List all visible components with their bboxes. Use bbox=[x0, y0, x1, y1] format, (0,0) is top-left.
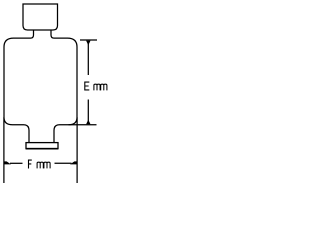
label F mm bbox=[37, 162, 50, 168]
base bbox=[26, 143, 58, 149]
F dimension line right bbox=[55, 162, 72, 164]
left extension line bbox=[3, 117, 5, 183]
F dimension arrow right bbox=[70, 161, 77, 164]
base bottom edge bbox=[26, 148, 59, 150]
F dimension arrow left bbox=[4, 161, 11, 164]
label E mm bbox=[94, 84, 107, 90]
right extension line bbox=[76, 117, 78, 183]
E top extension line bbox=[80, 39, 97, 41]
F dimension line left bbox=[10, 162, 23, 164]
E dimension line upper bbox=[87, 41, 89, 75]
E bottom extension line bbox=[69, 124, 97, 126]
E dimension line lower bbox=[87, 100, 89, 125]
wire body-right outline bbox=[51, 30, 77, 143]
label F bbox=[29, 160, 32, 169]
E dimension arrow up bbox=[86, 41, 90, 46]
E dimension arrow down bbox=[86, 120, 90, 125]
wire body-left outline bbox=[4, 30, 34, 143]
cap bbox=[23, 4, 58, 30]
label E bbox=[85, 82, 90, 91]
